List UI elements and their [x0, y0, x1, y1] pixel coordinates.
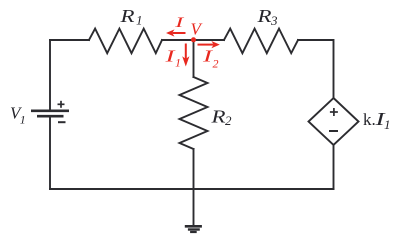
svg-text:R: R — [210, 107, 225, 127]
svg-text:I: I — [174, 15, 185, 31]
resistor R1 — [89, 29, 162, 54]
svg-text:R: R — [256, 6, 271, 26]
resistor R3 — [224, 29, 298, 54]
svg-text:1: 1 — [136, 13, 143, 28]
diamond minus sign — [329, 130, 338, 132]
label R2 — [210, 107, 232, 129]
wire top-right from R3 to diamond top — [298, 40, 334, 98]
wire left rail lower — [49, 116, 51, 189]
svg-text:k.: k. — [363, 110, 376, 129]
battery plus sign — [58, 101, 65, 108]
label k.I1 — [363, 109, 391, 132]
diamond plus sign — [330, 108, 338, 116]
svg-text:2: 2 — [225, 113, 232, 128]
svg-text:1: 1 — [384, 117, 391, 132]
current arrow I1 (down) — [182, 44, 189, 67]
current arrow I2 (right) — [198, 41, 220, 48]
wire top-left from left rail to R1 — [50, 39, 89, 41]
current arrow I (left) — [166, 29, 186, 36]
wire node V down to R2 — [193, 40, 195, 77]
label V1 — [10, 103, 26, 126]
svg-text:1: 1 — [175, 56, 181, 70]
wire left rail upper — [49, 40, 51, 111]
dependent source U1 diamond — [309, 98, 359, 145]
label R1 — [119, 6, 142, 28]
svg-text:R: R — [119, 6, 134, 26]
ground bars — [185, 226, 202, 232]
wire diamond bottom to bottom rail — [333, 145, 335, 189]
wire bottom rail — [50, 188, 334, 190]
wire top-mid R1 to R3 through node V — [162, 39, 224, 41]
wire R2 to bottom rail — [193, 149, 195, 189]
svg-text:3: 3 — [270, 13, 278, 28]
svg-text:2: 2 — [213, 57, 219, 71]
resistor R2 — [180, 77, 208, 149]
label I2 (red) — [201, 47, 218, 71]
label I1 (red) — [164, 47, 181, 70]
battery V1 plates — [31, 111, 69, 116]
ground stem — [193, 189, 195, 225]
svg-text:V: V — [191, 19, 204, 38]
node V dot — [191, 37, 196, 42]
svg-text:1: 1 — [20, 113, 26, 127]
battery minus sign — [58, 121, 66, 123]
label R3 — [256, 6, 278, 28]
